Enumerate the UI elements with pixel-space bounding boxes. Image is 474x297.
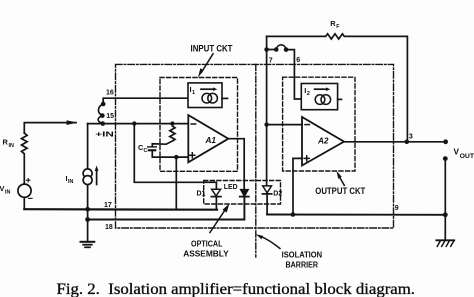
- svg-text:LED: LED: [224, 182, 238, 191]
- svg-text:C: C: [144, 148, 148, 154]
- svg-text:IN: IN: [9, 143, 14, 149]
- svg-text:ASSEMBLY: ASSEMBLY: [183, 248, 229, 258]
- svg-text:A2: A2: [317, 137, 329, 146]
- svg-text:Fig. 2. Isolation amplifier=f: Fig. 2. Isolation amplifier=functional b…: [57, 281, 416, 297]
- svg-text:15: 15: [106, 113, 114, 120]
- svg-text:6: 6: [296, 57, 300, 64]
- svg-text:D1: D1: [197, 191, 206, 198]
- svg-text:+IN: +IN: [95, 130, 114, 139]
- svg-text:D2: D2: [273, 191, 282, 198]
- svg-text:V: V: [0, 184, 5, 193]
- svg-text:1: 1: [192, 90, 195, 96]
- svg-text:2: 2: [307, 91, 310, 97]
- svg-text:BARRIER: BARRIER: [286, 259, 319, 269]
- svg-text:OPTICAL: OPTICAL: [191, 238, 223, 248]
- svg-text:3: 3: [409, 133, 413, 140]
- svg-text:9: 9: [395, 205, 399, 212]
- svg-text:IN: IN: [68, 179, 73, 185]
- svg-text:IN: IN: [5, 189, 10, 195]
- svg-text:INPUT CKT: INPUT CKT: [191, 43, 233, 53]
- svg-text:A1: A1: [205, 136, 217, 145]
- svg-text:F: F: [336, 24, 340, 30]
- svg-text:OUTPUT CKT: OUTPUT CKT: [315, 186, 365, 196]
- svg-text:V: V: [454, 148, 460, 157]
- svg-text:7: 7: [269, 57, 273, 64]
- svg-text:18: 18: [105, 224, 113, 231]
- svg-text:OUT: OUT: [460, 154, 474, 160]
- svg-text:16: 16: [106, 90, 114, 97]
- svg-text:17: 17: [104, 202, 112, 209]
- svg-text:ISOLATION: ISOLATION: [282, 250, 323, 260]
